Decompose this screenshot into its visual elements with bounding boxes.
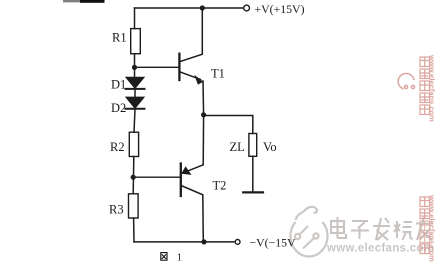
wire left rail top to R1 — [134, 8, 136, 29]
transistor T1 base bar — [178, 54, 180, 80]
diode D1 — [126, 78, 143, 89]
wire R1 bottom to node — [134, 54, 136, 78]
svg-text:T2: T2 — [213, 178, 227, 192]
right edge red watermark tile bottom — [420, 197, 430, 254]
node dot R1/D1 base T1 — [132, 65, 137, 70]
load ZL — [249, 134, 257, 157]
svg-text:D1: D1 — [111, 78, 126, 92]
label 图1 (figure 1) pseudo glyph — [161, 253, 167, 261]
transistor T2 emitter wire from node — [202, 115, 204, 165]
svg-text:−V(−15V: −V(−15V — [250, 236, 297, 250]
svg-text:Vo: Vo — [263, 140, 277, 154]
resistor R2 — [129, 132, 138, 156]
svg-text:+V(+15V): +V(+15V) — [255, 2, 305, 16]
wire node to ZL — [204, 116, 253, 134]
svg-text:R1: R1 — [112, 31, 127, 45]
resistor R3 — [129, 194, 139, 218]
wire ZL to ground — [252, 156, 254, 191]
transistor T1 emitter — [180, 72, 201, 80]
node dot top rail — [200, 5, 205, 10]
wire base T1 — [135, 66, 180, 68]
right edge red watermark tile top — [398, 57, 429, 115]
scan artifact top bar — [63, 0, 81, 2]
transistor T2 collector — [182, 186, 204, 242]
arrow T2 emitter — [181, 166, 191, 175]
wire base T2 — [133, 176, 181, 178]
watermark text 电子发烧友 (pseudo glyph strokes) — [331, 217, 433, 240]
svg-text:www.elecfans.com: www.elecfans.com — [428, 54, 437, 122]
node dot R2/R3 base T2 — [131, 175, 136, 180]
transistor T2 emitter — [185, 165, 204, 173]
wire R2 to node — [132, 157, 135, 194]
svg-text:R2: R2 — [110, 140, 125, 154]
node dot emitters ZL — [201, 112, 206, 117]
svg-text:T1: T1 — [211, 67, 225, 81]
svg-text:R3: R3 — [109, 202, 124, 216]
svg-text:ZL: ZL — [230, 140, 245, 154]
svg-text:www.elecfans.com: www.elecfans.com — [326, 243, 434, 255]
diode D2 — [126, 97, 143, 108]
友 — [416, 217, 433, 240]
terminal +V — [244, 5, 250, 11]
wire R3 to bottom rail — [133, 218, 135, 242]
wire bottom rail — [134, 241, 234, 243]
svg-text:1: 1 — [177, 252, 182, 263]
svg-text:D2: D2 — [111, 101, 126, 115]
电 — [331, 221, 344, 233]
ground — [243, 191, 263, 193]
子 — [351, 221, 369, 239]
terminal -V — [235, 240, 240, 245]
svg-text:www.elecfans.com: www.elecfans.com — [428, 194, 437, 262]
wire top rail — [135, 7, 243, 9]
发 — [373, 218, 390, 240]
arrow T1 emitter — [194, 75, 203, 85]
vertical CJK column — [420, 57, 430, 115]
wire D1-D2 — [134, 90, 136, 98]
transistor T2 base bar — [180, 164, 182, 197]
resistor R1 — [131, 29, 141, 54]
烧 — [394, 221, 413, 240]
watermark logo (grey plug) — [291, 207, 328, 257]
transistor T1 collector — [180, 8, 202, 62]
wire D2 to R2 — [134, 109, 135, 132]
node dot bottom rail — [201, 239, 206, 244]
